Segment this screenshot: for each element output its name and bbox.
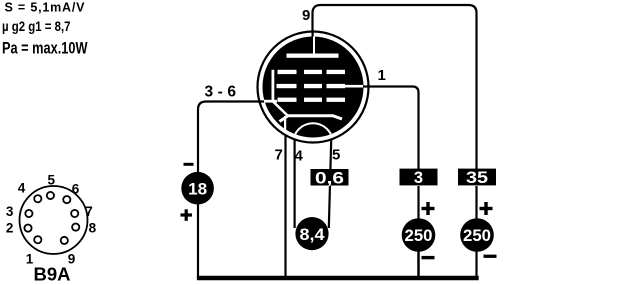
base pin 8 xyxy=(72,224,79,231)
voltmeter 18 (grid bias) xyxy=(181,172,214,205)
svg-text:0,6: 0,6 xyxy=(315,170,344,188)
polarity plus above screen voltmeter 250 xyxy=(422,202,435,215)
base pin 3 xyxy=(25,210,32,217)
svg-text:µ g2 g1 = 8,7: µ g2 g1 = 8,7 xyxy=(2,19,71,34)
wire: pin 9 top run to right rail xyxy=(313,5,477,170)
ammeter box 3 (screen current) xyxy=(400,169,438,187)
svg-text:9: 9 xyxy=(302,7,310,24)
wire: pin 5 heater lead through box 0,6 xyxy=(329,137,332,228)
svg-text:5: 5 xyxy=(332,147,340,164)
svg-text:18: 18 xyxy=(188,179,207,198)
svg-text:8,4: 8,4 xyxy=(300,225,326,244)
svg-text:4: 4 xyxy=(18,180,26,195)
B9A base outline xyxy=(20,186,88,254)
heater loop arc xyxy=(293,123,333,163)
wire 3-6 ring crossing xyxy=(258,100,266,102)
ammeter box 0,6 (heater current) xyxy=(311,169,349,188)
wire: pin 4 heater lead xyxy=(294,137,296,228)
svg-text:7: 7 xyxy=(85,204,93,219)
grid g1 dashed row xyxy=(278,98,346,102)
grid g3 dashed row xyxy=(278,70,346,74)
pin 9 lead white tick to anode xyxy=(313,37,315,55)
wire: pin 7 cathode lead to bottom rail xyxy=(284,131,286,278)
svg-text:8: 8 xyxy=(89,221,97,236)
voltmeter 250 (screen voltage) xyxy=(402,218,436,252)
svg-text:250: 250 xyxy=(463,226,491,245)
grid g2 dashed row xyxy=(277,84,346,88)
svg-text:3-6: 3-6 xyxy=(205,84,237,101)
grid left connector strap xyxy=(272,70,275,103)
anode plate bar xyxy=(287,54,339,58)
svg-text:3: 3 xyxy=(414,169,423,187)
wire pin 1 ring crossing xyxy=(361,85,369,87)
svg-text:35: 35 xyxy=(466,169,488,187)
base pin 7 xyxy=(71,210,78,217)
base pin 6 xyxy=(63,196,70,203)
svg-text:4: 4 xyxy=(295,148,304,165)
svg-text:B9A: B9A xyxy=(34,264,71,285)
svg-text:3: 3 xyxy=(6,204,14,219)
svg-text:7: 7 xyxy=(275,147,283,164)
wire: screen branch box 3 to voltmeter 250 xyxy=(417,186,419,219)
polarity plus above anode voltmeter 250 xyxy=(480,202,493,215)
svg-text:6: 6 xyxy=(72,181,80,196)
svg-text:Pa = max.10W: Pa = max.10W xyxy=(2,40,88,58)
wire: grid 3-6 run to bias branch xyxy=(198,102,266,173)
base pin 9 xyxy=(61,237,68,244)
cathode lead white tick to pin 7 xyxy=(284,116,286,131)
polarity minus below anode voltmeter 250 xyxy=(484,255,497,258)
wire: right rail segment box 35 to voltmeter 250 xyxy=(475,186,477,219)
polarity minus below screen voltmeter 250 xyxy=(422,256,435,259)
wire: right rail segment voltmeter 250 to bottom rail xyxy=(475,252,477,279)
svg-text:1: 1 xyxy=(378,67,386,84)
ammeter box 35 (anode current) xyxy=(458,169,496,187)
grid exit line to pin 1 xyxy=(344,85,363,88)
base pin 1 xyxy=(34,236,41,243)
svg-text:5: 5 xyxy=(48,173,56,188)
connector strap diagonal to cathode xyxy=(273,101,289,116)
grid entry line from pins 3-6 xyxy=(264,100,277,103)
voltmeter 8,4 (heater voltage) xyxy=(295,217,328,250)
wire: bottom rail xyxy=(197,276,479,280)
base pin 4 xyxy=(34,195,41,202)
tube U1 envelope xyxy=(258,32,369,143)
tube U1 inner disc xyxy=(263,37,364,138)
cathode line xyxy=(280,116,343,122)
base pin 2 xyxy=(24,225,31,232)
svg-text:2: 2 xyxy=(6,221,14,236)
polarity plus below voltmeter 18 xyxy=(181,209,193,221)
svg-text:250: 250 xyxy=(405,226,433,245)
polarity minus above voltmeter 18 xyxy=(184,163,194,166)
base pin 5 xyxy=(47,192,54,199)
voltmeter 250 (anode voltage) xyxy=(460,218,494,252)
svg-text:S = 5,1mA/V: S = 5,1mA/V xyxy=(5,1,86,15)
wire: screen branch voltmeter 250 to bottom rail xyxy=(417,252,420,279)
wire: bias branch voltmeter 18 to bottom rail xyxy=(197,204,199,278)
wire: pin 1 run to screen branch xyxy=(361,87,419,171)
pin 9 lead tick inside envelope xyxy=(312,31,314,38)
